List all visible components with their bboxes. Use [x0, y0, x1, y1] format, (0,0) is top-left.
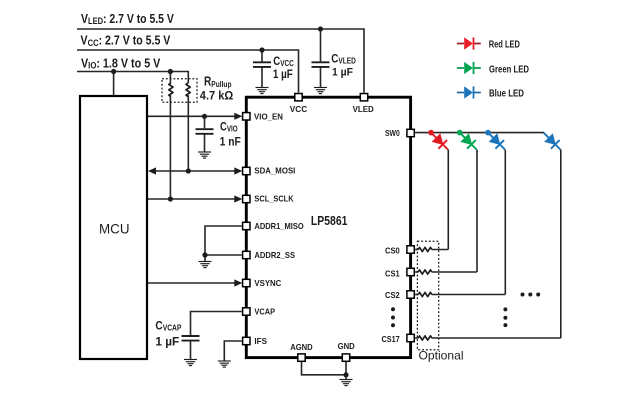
svg-text:IFS: IFS — [254, 336, 267, 346]
svg-text:VSYNC: VSYNC — [254, 279, 281, 288]
svg-text:RPullup: RPullup — [204, 75, 232, 90]
svg-text:CS0: CS0 — [385, 246, 400, 255]
svg-text:VLED: 2.7 V to 5.5 V: VLED: 2.7 V to 5.5 V — [81, 13, 174, 26]
svg-text:SDA_MOSI: SDA_MOSI — [254, 166, 295, 175]
svg-text:VCAP: VCAP — [254, 307, 275, 317]
svg-text:LP5861: LP5861 — [311, 215, 348, 228]
svg-text:VLED: VLED — [353, 105, 374, 114]
svg-text:CS2: CS2 — [385, 290, 400, 299]
svg-text:Red LED: Red LED — [489, 38, 520, 49]
svg-text:Green LED: Green LED — [489, 63, 529, 74]
svg-text:CS1: CS1 — [385, 269, 400, 278]
svg-text:CVCC: CVCC — [273, 55, 294, 68]
svg-text:GND: GND — [338, 342, 355, 351]
svg-text:Blue LED: Blue LED — [489, 87, 524, 98]
svg-text:1 µF: 1 µF — [273, 68, 293, 81]
svg-text:CS17: CS17 — [382, 334, 401, 344]
svg-text:CVLED: CVLED — [331, 53, 356, 66]
svg-text:4.7 kΩ: 4.7 kΩ — [200, 91, 233, 103]
svg-text:1 nF: 1 nF — [220, 136, 241, 149]
svg-text:ADDR1_MISO: ADDR1_MISO — [254, 222, 303, 232]
svg-text:CVIO: CVIO — [220, 120, 238, 133]
svg-text:AGND: AGND — [290, 343, 313, 352]
svg-text:VCC: VCC — [290, 104, 307, 114]
svg-text:ADDR2_SS: ADDR2_SS — [254, 250, 295, 259]
svg-text:VIO_EN: VIO_EN — [254, 112, 283, 121]
svg-text:MCU: MCU — [99, 222, 129, 237]
svg-text:SW0: SW0 — [385, 128, 400, 138]
svg-text:Optional: Optional — [419, 349, 464, 363]
svg-text:VCC: 2.7 V to 5.5 V: VCC: 2.7 V to 5.5 V — [81, 35, 171, 48]
svg-text:SCL_SCLK: SCL_SCLK — [254, 194, 293, 204]
svg-text:1 µF: 1 µF — [155, 336, 179, 349]
svg-text:CVCAP: CVCAP — [155, 320, 181, 333]
svg-text:VIO: 1.8 V to 5 V: VIO: 1.8 V to 5 V — [81, 57, 161, 71]
svg-text:1 µF: 1 µF — [332, 66, 353, 79]
